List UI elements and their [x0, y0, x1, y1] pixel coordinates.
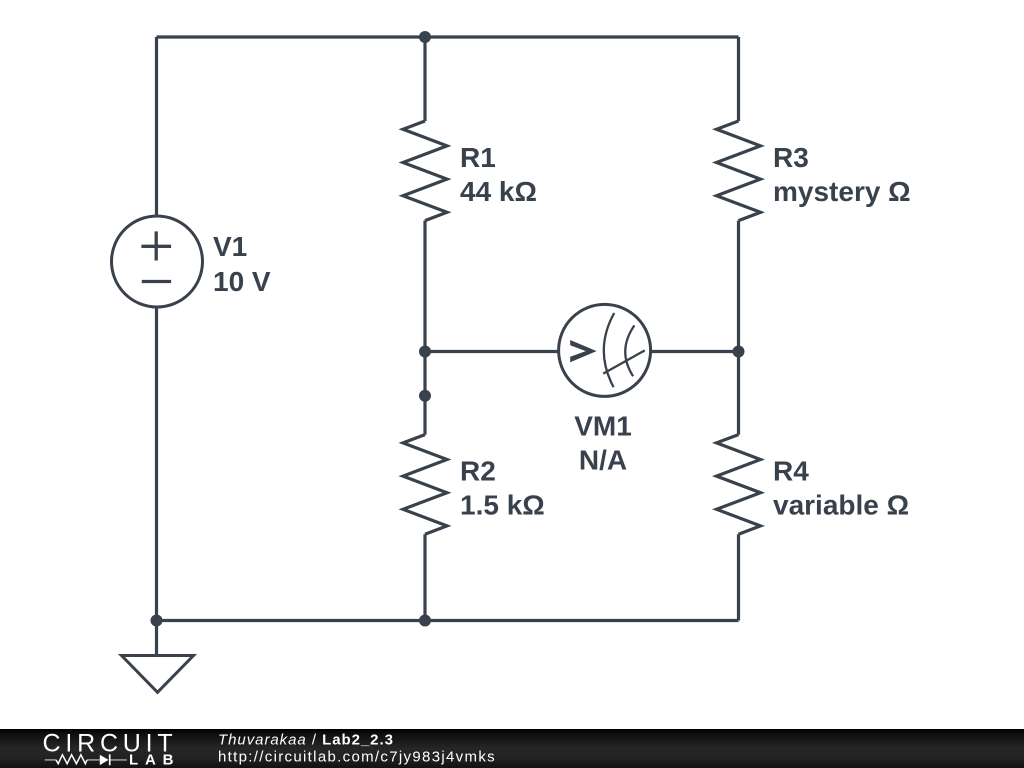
wire R1 upper lead [423, 37, 426, 121]
svg-text:http://circuitlab.com/c7jy983j: http://circuitlab.com/c7jy983j4vmks [218, 749, 496, 766]
svg-text:VM1: VM1 [574, 411, 632, 442]
svg-text:1.5 kΩ: 1.5 kΩ [460, 489, 545, 520]
wire R2 lower lead [423, 534, 426, 620]
svg-text:R4: R4 [773, 455, 809, 486]
wire right rail middle [737, 221, 740, 435]
svg-text:R2: R2 [460, 455, 496, 486]
node below middle junction [419, 390, 431, 402]
ground stem [155, 621, 158, 656]
svg-text:44 kΩ: 44 kΩ [460, 176, 537, 207]
resistor R2 zigzag [403, 435, 447, 535]
wire left rail [155, 37, 158, 621]
wire top rail [157, 35, 739, 38]
svg-text:Thuvarakaa / Lab2_2.3: Thuvarakaa / Lab2_2.3 [218, 731, 394, 748]
resistor R1 zigzag [403, 121, 447, 221]
node middle junction left [419, 346, 431, 358]
wire middle horizontal [425, 350, 739, 353]
voltmeter VM1 [559, 304, 651, 396]
wire right rail lower lead [737, 534, 740, 620]
node bottom left junction [151, 615, 163, 627]
svg-text:V1: V1 [213, 231, 247, 262]
svg-text:LAB: LAB [129, 751, 180, 768]
logo diode [100, 755, 109, 765]
svg-text:R1: R1 [460, 142, 496, 173]
svg-text:10 V: 10 V [213, 266, 271, 297]
logo resistor zigzag [56, 755, 87, 764]
resistor R3 zigzag [717, 121, 761, 221]
ground [122, 656, 194, 693]
node junction dots [151, 31, 745, 627]
node bottom middle junction [419, 615, 431, 627]
logo diode bar [109, 754, 111, 765]
voltage source V1 [112, 216, 203, 307]
wire right rail upper lead [737, 37, 740, 121]
svg-text:variable Ω: variable Ω [773, 489, 909, 520]
svg-text:R3: R3 [773, 142, 809, 173]
logo resistor lead [45, 759, 127, 761]
wire R1 to middle node [423, 221, 426, 435]
resistor R4 zigzag [717, 435, 761, 535]
wire bottom rail [157, 619, 739, 622]
node middle junction right [733, 346, 745, 358]
node top junction [419, 31, 431, 43]
svg-text:mystery Ω: mystery Ω [773, 176, 911, 207]
svg-text:N/A: N/A [579, 445, 627, 476]
